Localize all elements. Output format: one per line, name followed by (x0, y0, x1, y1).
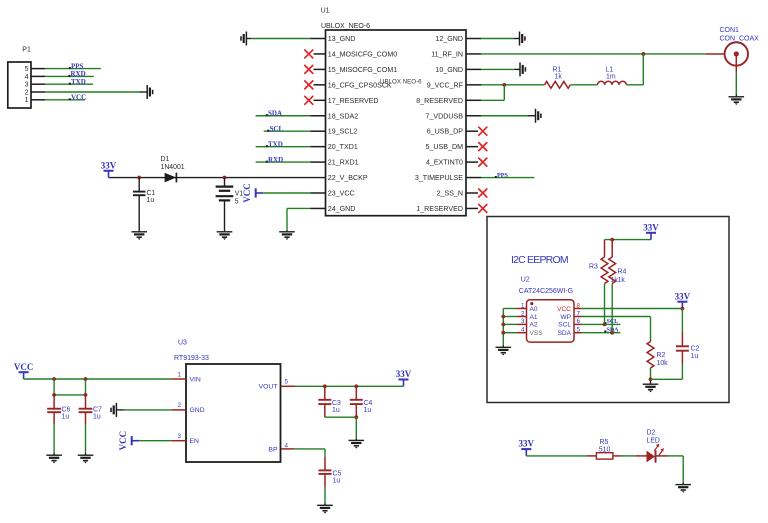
svg-text:BP: BP (268, 446, 278, 453)
svg-text:SDA: SDA (268, 109, 282, 117)
svg-text:33V: 33V (519, 439, 535, 449)
no-ERC marker pin 4 (479, 158, 487, 166)
svg-text:1_RESERVED: 1_RESERVED (416, 205, 463, 213)
wire VCC to U3 EN (139, 440, 172, 442)
junction R4 top (610, 238, 614, 242)
svg-text:TXD: TXD (268, 140, 283, 148)
wire SDA to U1 pin18 (256, 115, 311, 117)
wire U1 pin24 to ground (287, 208, 311, 231)
svg-text:SCL: SCL (270, 125, 284, 133)
svg-text:33V: 33V (675, 291, 691, 301)
wire P1.2 to ground (45, 91, 147, 93)
wire D2 to ground (668, 456, 683, 485)
svg-text:3: 3 (25, 82, 29, 89)
connector CON1 CON_COAX (720, 27, 760, 73)
svg-text:C3: C3 (332, 400, 341, 407)
svg-text:R5: R5 (600, 439, 609, 446)
wire R1 to L1 (570, 84, 597, 86)
svg-text:A1: A1 (530, 314, 538, 321)
svg-text:R3: R3 (589, 264, 598, 271)
svg-text:8_RESERVED: 8_RESERVED (416, 97, 463, 105)
svg-text:16_CFG_CPS0SCK: 16_CFG_CPS0SCK (328, 81, 392, 89)
svg-text:C4: C4 (364, 400, 373, 407)
ground at R2 (643, 384, 659, 392)
wire R2 bottom (650, 368, 652, 384)
svg-text:1m: 1m (606, 74, 616, 81)
svg-text:U2: U2 (521, 276, 530, 283)
ground at C1 (131, 232, 147, 240)
svg-text:D2: D2 (647, 430, 656, 437)
svg-text:19_SCL2: 19_SCL2 (328, 128, 358, 136)
wire R2 junction to C2 bottom (651, 378, 683, 380)
U2 right pin names (557, 306, 572, 337)
U2 left pin names (530, 306, 544, 337)
svg-text:5_USB_DM: 5_USB_DM (426, 143, 464, 151)
svg-text:WP: WP (560, 314, 571, 321)
no-ERC marker pin 5 (479, 143, 487, 151)
resistor R2 10k (647, 340, 668, 368)
U3 pin stubs (172, 379, 295, 449)
junction C7 (84, 393, 88, 397)
no-ERC marker pin 1 (479, 204, 487, 212)
svg-text:U3: U3 (178, 339, 187, 346)
junction C3 (323, 384, 327, 388)
wire U1 pin9 VCC_RF to R1 (481, 84, 545, 86)
svg-text:UBLOX_NEO-6: UBLOX_NEO-6 (321, 23, 370, 30)
wire 33V to U1 pin22 V_BCKP (109, 177, 326, 179)
svg-text:1k: 1k (555, 74, 563, 81)
wire R5 to D2 (621, 455, 647, 457)
svg-text:3_TIMEPULSE: 3_TIMEPULSE (415, 174, 463, 182)
wire U3 GND to ground (116, 409, 172, 411)
svg-text:RXD: RXD (268, 156, 283, 164)
wire PPS from P1.5 (45, 68, 101, 70)
svg-text:PPS: PPS (497, 172, 509, 179)
ground at U1 pin7 (536, 109, 541, 123)
U2 pin1 marker (530, 302, 533, 305)
no-ERC marker pin 14 (305, 50, 313, 58)
ground at C3/C4 (349, 440, 365, 448)
junction U2 VCC / C2 (681, 307, 685, 311)
capacitor C2 1u (676, 309, 700, 380)
svg-text:9_VCC_RF: 9_VCC_RF (427, 81, 464, 89)
svg-text:VCC: VCC (14, 362, 34, 372)
wire RF_IN net (pin11 to CON1) (481, 53, 725, 55)
svg-text:18_SDA2: 18_SDA2 (328, 112, 358, 120)
power port 33V (U2 VCC) (677, 302, 687, 309)
svg-text:22_V_BCKP: 22_V_BCKP (328, 174, 368, 182)
U1 left pin stubs (311, 39, 326, 209)
svg-text:C2: C2 (691, 345, 700, 352)
svg-text:5: 5 (235, 198, 239, 205)
resistor R1 1k (545, 67, 571, 89)
capacitor C3 1u (318, 386, 341, 417)
diode D1 1N4001 (161, 156, 185, 182)
junction VCC_RF / pin8 (502, 83, 506, 87)
svg-text:33V: 33V (396, 369, 412, 379)
junction U2 A1 (501, 315, 505, 319)
no-ERC marker pin 2 (479, 189, 487, 197)
junction V1 (223, 176, 227, 180)
resistor R5 510 (587, 439, 621, 459)
wire VCC to U1 pin23 (263, 192, 310, 194)
U2 pin numbers (521, 302, 580, 333)
svg-text:VIN: VIN (190, 376, 201, 383)
ground at V1 (217, 232, 233, 240)
svg-text:12_GND: 12_GND (435, 35, 463, 43)
wire U1 pin7 VDDUSB (481, 115, 536, 117)
U2 left pin stubs (517, 309, 527, 333)
svg-text:33V: 33V (643, 222, 659, 232)
svg-text:1u: 1u (332, 407, 340, 414)
svg-text:A0: A0 (530, 306, 538, 313)
svg-text:C1: C1 (147, 190, 156, 197)
wire U1 pin8 RESERVED up to VCC_RF (481, 85, 504, 100)
capacitor C1 1u (133, 178, 156, 232)
junction U2 A2 (501, 323, 505, 327)
power port VCC (U3 EN) (132, 436, 140, 445)
wire U3 VOUT to 33V (295, 385, 404, 387)
wire U3 BP to C5 (295, 449, 325, 457)
wire U1 pin12 GND (481, 38, 520, 40)
wire TXD from P1.3 (45, 83, 93, 85)
svg-text:6_USB_DP: 6_USB_DP (427, 128, 464, 136)
junction C6 top (52, 377, 56, 381)
svg-text:CON_COAX: CON_COAX (720, 36, 760, 43)
wire C3 bottom to C4 bottom (325, 416, 357, 418)
junction U2 VSS (501, 331, 505, 335)
svg-text:4_EXTINT0: 4_EXTINT0 (426, 159, 463, 167)
ground at U3 GND pin (111, 403, 116, 417)
svg-text:R1: R1 (553, 67, 562, 74)
inductor L1 1m (598, 67, 627, 85)
junction SDA / R4 (610, 331, 614, 335)
svg-text:20_TXD1: 20_TXD1 (328, 143, 358, 151)
svg-text:15_MISOCFG_COM1: 15_MISOCFG_COM1 (328, 66, 397, 74)
wire TXD to U1 pin20 (256, 146, 311, 148)
IC U1 UBLOX_NEO-6 body (321, 8, 466, 216)
ground at C6 (46, 455, 62, 463)
no-ERC marker pin 6 (479, 127, 487, 135)
junction C7 top (84, 377, 88, 381)
junction C1 (137, 176, 141, 180)
wire RXD from P1.4 (45, 75, 94, 77)
power port VCC (U1 pin23) (256, 188, 264, 197)
svg-text:10_GND: 10_GND (435, 66, 463, 74)
wire C4 to ground (355, 417, 357, 440)
svg-text:EN: EN (190, 438, 200, 445)
svg-text:510: 510 (599, 446, 611, 453)
svg-text:VCC: VCC (118, 431, 128, 451)
IC U2 CAT24C256WI-G body (519, 276, 574, 342)
wire VCC to U3 VIN (24, 378, 172, 380)
resistor R3 (589, 240, 618, 284)
svg-text:23_VCC: 23_VCC (328, 190, 355, 198)
svg-text:1u: 1u (691, 353, 699, 360)
ground at U1 pin24 (279, 232, 295, 240)
svg-text:5: 5 (285, 379, 289, 386)
svg-text:13_GND: 13_GND (328, 35, 356, 43)
svg-text:PPS: PPS (71, 62, 84, 70)
wire VCC from P1.1 (45, 99, 85, 101)
U1 right pin stubs (466, 39, 481, 209)
svg-text:2: 2 (25, 89, 29, 96)
junction C6 (52, 393, 56, 397)
svg-text:1u: 1u (147, 197, 155, 204)
svg-text:GND: GND (190, 407, 205, 414)
junction SCL / R3 (603, 323, 607, 327)
svg-text:10k: 10k (657, 360, 669, 367)
wire U2 WP to R2 (582, 317, 651, 341)
U1 right pin names (415, 35, 464, 213)
svg-text:VSS: VSS (530, 330, 544, 337)
power port 33V (V_BCKP) (104, 171, 114, 178)
junction C4 (354, 384, 358, 388)
svg-text:7_VDDUSB: 7_VDDUSB (426, 112, 464, 120)
svg-text:1N4001: 1N4001 (161, 164, 185, 171)
power port VCC (U3 VIN) (19, 372, 29, 379)
U1 left pin names (328, 35, 397, 213)
svg-text:11_RF_IN: 11_RF_IN (431, 50, 463, 58)
svg-text:VCC: VCC (242, 183, 252, 203)
wire RXD to U1 pin21 (256, 161, 311, 163)
svg-text:1: 1 (25, 97, 29, 104)
no-ERC marker pin 15 (305, 65, 313, 73)
wire U2 SCL (582, 323, 621, 325)
svg-text:A2: A2 (530, 322, 538, 329)
svg-text:I2C EEPROM: I2C EEPROM (511, 254, 568, 266)
svg-text:21_RXD1: 21_RXD1 (328, 159, 359, 167)
LED D2 (647, 430, 669, 463)
svg-text:VCC: VCC (557, 306, 571, 313)
svg-text:5: 5 (25, 66, 29, 73)
svg-text:17_RESERVED: 17_RESERVED (328, 97, 379, 105)
svg-text:RXD: RXD (71, 70, 86, 78)
ground at U1 pin12 (520, 32, 525, 46)
svg-text:RT9193-33: RT9193-33 (174, 355, 209, 362)
wire U2 VCC to 33V (582, 308, 683, 310)
ground at CON1 (729, 97, 745, 105)
svg-text:14_MOSICFG_COM0: 14_MOSICFG_COM0 (328, 50, 397, 58)
wire CON1 to ground (735, 73, 737, 97)
svg-text:R4: R4 (618, 268, 627, 275)
svg-text:1u: 1u (364, 407, 372, 414)
ground at D2 (675, 485, 691, 493)
wire R4 to SDA (611, 284, 613, 333)
svg-text:D1: D1 (161, 156, 170, 163)
U2 right pin stubs (574, 309, 582, 333)
power port 33V (EEPROM pullups) (646, 233, 656, 240)
wire R3/R4 tops to 33V (605, 239, 652, 241)
wire 33V to R5 (526, 455, 587, 457)
P1 pin stubs (31, 69, 45, 100)
svg-text:24_GND: 24_GND (328, 205, 356, 213)
power port 33V (LED) (521, 449, 531, 456)
junction C4 bottom (354, 415, 358, 419)
svg-text:VOUT: VOUT (259, 384, 278, 391)
svg-text:1u: 1u (62, 413, 70, 420)
junction RF_IN (641, 52, 645, 56)
svg-text:VCC: VCC (71, 94, 86, 102)
wire C6/C7 feed (54, 379, 85, 395)
wire L1 up to RF_IN (626, 54, 643, 85)
svg-text:P1: P1 (22, 47, 31, 54)
svg-text:2_SS_N: 2_SS_N (437, 190, 463, 198)
capacitor C4 1u (350, 386, 373, 417)
svg-text:4: 4 (25, 74, 29, 81)
svg-text:R2: R2 (657, 352, 666, 359)
ground at U1 pin10 (520, 62, 525, 76)
wire R3 to SCL (604, 284, 606, 325)
svg-text:C5: C5 (333, 470, 342, 477)
svg-text:3: 3 (178, 433, 182, 440)
svg-text:1k: 1k (618, 277, 626, 284)
IC U3 RT9193-33 body (174, 339, 281, 462)
ground at C7 (78, 455, 94, 463)
I2C EEPROM section box (487, 217, 729, 403)
svg-text:1u: 1u (333, 478, 341, 485)
svg-text:1u: 1u (93, 413, 101, 420)
wire U2 address pins to ground (503, 309, 517, 348)
capacitor C6 1u (47, 395, 70, 455)
svg-text:U1: U1 (321, 8, 330, 15)
svg-text:TXD: TXD (71, 78, 86, 86)
wire U2 SDA (582, 332, 621, 334)
svg-text:2: 2 (178, 402, 182, 409)
wire U1 pin10 GND (481, 68, 520, 70)
svg-text:1: 1 (178, 371, 182, 378)
svg-text:SCL: SCL (558, 322, 571, 329)
ground at P1 pin 2 (147, 85, 152, 99)
wire U1 pin3 TIMEPULSE (481, 177, 535, 179)
no-ERC marker pin 16 (305, 81, 313, 89)
junction R2/C2 ground net (649, 377, 653, 381)
U3 pin numbers (178, 371, 289, 449)
svg-text:CON1: CON1 (720, 27, 740, 34)
no-ERC marker pin 17 (305, 96, 313, 104)
connector P1 (8, 47, 31, 109)
capacitor C5 1u (319, 457, 342, 506)
svg-text:L1: L1 (606, 67, 614, 74)
svg-text:33V: 33V (101, 160, 117, 170)
ground at U2 (496, 347, 512, 355)
capacitor C7 1u (79, 395, 102, 455)
battery V1 5V (216, 178, 244, 232)
wire SCL to U1 pin19 (264, 130, 311, 132)
ground at C5 (317, 505, 333, 513)
svg-text:LED: LED (647, 438, 660, 445)
power port 33V (VOUT) (399, 380, 409, 387)
svg-text:SDA: SDA (557, 330, 571, 337)
wire U1 pin13 GND (246, 38, 310, 40)
ground at U1 pin13 (241, 32, 246, 46)
U3 pin names (190, 376, 278, 453)
resistor R4 (609, 240, 627, 284)
svg-text:CAT24C256WI-G: CAT24C256WI-G (519, 288, 573, 295)
